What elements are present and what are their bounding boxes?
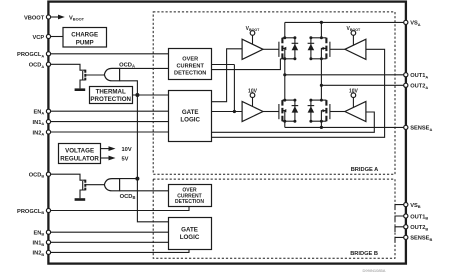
wire leg2 top [320,22,322,37]
ground QA [75,88,86,91]
wire OCDA [49,64,86,70]
wire PROGCLA to over current detection A [49,53,170,55]
wire SENSEA [285,126,406,128]
pin OUT2A [404,83,429,90]
pin ENB [33,230,50,237]
svg-text:PUMP: PUMP [76,39,94,46]
pin VBOOT [24,15,51,21]
svg-text:ENB: ENB [33,231,44,237]
gate logic B [169,218,212,250]
gate logic A [169,91,212,142]
wire gate logic A to right drivers [212,49,385,137]
svg-text:OCDB: OCDB [120,194,136,200]
wire leg2 to sense [320,121,322,127]
svg-text:10V: 10V [349,88,359,94]
junction dots high bridge [283,36,323,60]
junction dots low bridge [283,99,323,123]
svg-text:OCDA: OCDA [29,63,45,69]
svg-text:IN1B: IN1B [33,241,45,247]
svg-text:D99IN1085A: D99IN1085A [363,268,386,273]
wire leg2 to OUT2 [320,59,322,100]
svg-text:OUT2A: OUT2A [410,84,428,90]
svg-text:SENSEA: SENSEA [410,126,432,132]
wire IN1A [49,121,170,123]
wire PROGCLB [49,207,190,211]
wire IN2A [49,131,170,133]
svg-text:VBOOT: VBOOT [69,15,85,21]
wire 5V arrow [101,156,116,161]
wire OCD A out2 sense [212,59,281,70]
gate B [104,179,119,191]
wire trunk vertical [137,95,168,222]
wire 10V arrow [101,146,116,151]
over current detection A [169,49,212,80]
voltage regulator [59,144,101,164]
ground QB [75,198,86,201]
driver U3 low left [242,88,263,121]
wire OUT2 [321,84,405,86]
svg-text:LOGIC: LOGIC [180,117,200,124]
charge pump [63,28,107,48]
svg-text:IN1A: IN1A [33,120,45,126]
bridge A dashed border [153,12,395,174]
wire leg1 top [284,22,286,37]
svg-text:VOLTAGE: VOLTAGE [65,148,94,155]
wire gate logic A to high left driver [212,49,243,102]
svg-text:OUT2B: OUT2B [410,225,428,231]
pin IN1A [33,120,51,127]
svg-text:10V: 10V [122,147,132,153]
svg-text:5V: 5V [122,156,129,162]
driver U1 high left [242,26,263,59]
wire VS rail [285,21,406,23]
pin VCP [32,34,50,40]
wire gateB bottom to OCD box B [120,190,168,192]
svg-text:THERMAL: THERMAL [96,89,126,96]
diode D4 [308,100,315,121]
pin ENA [33,109,50,116]
wire IN2B [49,250,190,253]
wire leg1 to OUT1 [284,59,286,100]
svg-text:IN2B: IN2B [33,251,45,257]
pin OUT1B [404,214,429,221]
pin OUT2B [404,225,429,232]
transistor QB open drain [80,180,105,199]
wire OUT2B stub [395,227,406,232]
transistor M4 [311,100,345,121]
svg-text:OUT1A: OUT1A [410,73,428,79]
junction trunk B [135,177,139,181]
junction trunk A [135,93,139,97]
wire VSB stub [395,205,406,210]
pin OCDB [29,172,51,179]
wire ENA [49,110,170,112]
wire gateA bottom to trunk [120,81,138,95]
chip outline [48,2,406,264]
transistor M2 [311,38,345,59]
pin PROGCLB [17,208,51,215]
wire OCD A out1 to low left driver [212,64,235,66]
svg-text:10V: 10V [248,88,258,94]
pin IN2B [33,250,51,257]
over current detection B [169,185,212,207]
svg-text:PROTECTION: PROTECTION [90,96,131,103]
wire OCDB [49,174,86,180]
svg-text:GATE: GATE [182,109,199,116]
pin OCDA [29,62,51,69]
wire gateB top to trunk [120,178,138,180]
svg-text:SENSEB: SENSEB [410,236,432,242]
bridge B dashed border [153,179,395,258]
wire ENB [49,231,169,233]
svg-text:VSA: VSA [410,21,421,27]
svg-text:VCP: VCP [32,35,44,41]
pin SENSEA [404,125,433,132]
wire VBOOT arrow [49,15,65,20]
driver U2 high right [345,26,366,59]
transistor M3 [263,100,295,121]
pin IN2A [33,130,51,137]
diode D3 [292,100,299,121]
wire thermal to gate logic A [133,94,170,96]
svg-text:DETECTION: DETECTION [175,199,204,205]
svg-text:BRIDGE A: BRIDGE A [351,167,379,173]
svg-text:BRIDGE B: BRIDGE B [350,251,378,257]
gate A [104,68,119,80]
svg-text:CHARGE: CHARGE [71,32,98,39]
wire gate logic A to low left driver [212,111,243,113]
svg-text:PROGCLB: PROGCLB [17,209,44,215]
pin SENSEB [404,235,433,242]
svg-text:CURRENT: CURRENT [177,63,205,69]
pin OUT1A [404,73,429,80]
diode D1 [292,38,299,59]
svg-text:LOGIC: LOGIC [180,234,200,241]
wire VCP to charge pump [49,36,64,38]
svg-text:VSB: VSB [410,203,421,209]
thermal protection [90,87,133,104]
wire leg1 to sense [284,121,286,127]
wire IN1B [49,241,169,243]
svg-text:VBOOT: VBOOT [24,15,45,21]
svg-text:ENA: ENA [33,110,44,116]
pin PROGCLA [17,52,51,59]
transistor M1 [263,38,295,59]
svg-text:OVER: OVER [182,56,198,62]
svg-text:PROGCLA: PROGCLA [17,52,44,58]
svg-text:OCDB: OCDB [29,173,45,179]
wire OUT1B stub [395,216,406,221]
svg-text:IN2A: IN2A [33,130,45,136]
pin VSB [404,203,421,210]
diode D2 [308,38,315,59]
svg-text:DETECTION: DETECTION [174,70,206,76]
wire OUT1 [285,74,406,76]
pin VSA [404,20,421,27]
svg-text:GATE: GATE [181,227,198,234]
pin IN1B [33,240,51,247]
svg-text:OCDA: OCDA [119,63,135,69]
svg-text:OUT1B: OUT1B [410,214,428,220]
svg-text:REGULATOR: REGULATOR [60,155,99,162]
wire gateA top to OCD box [120,67,169,69]
driver U4 low right [345,88,366,121]
wire SENSEB stub [395,237,406,242]
transistor QA open drain [80,70,105,89]
